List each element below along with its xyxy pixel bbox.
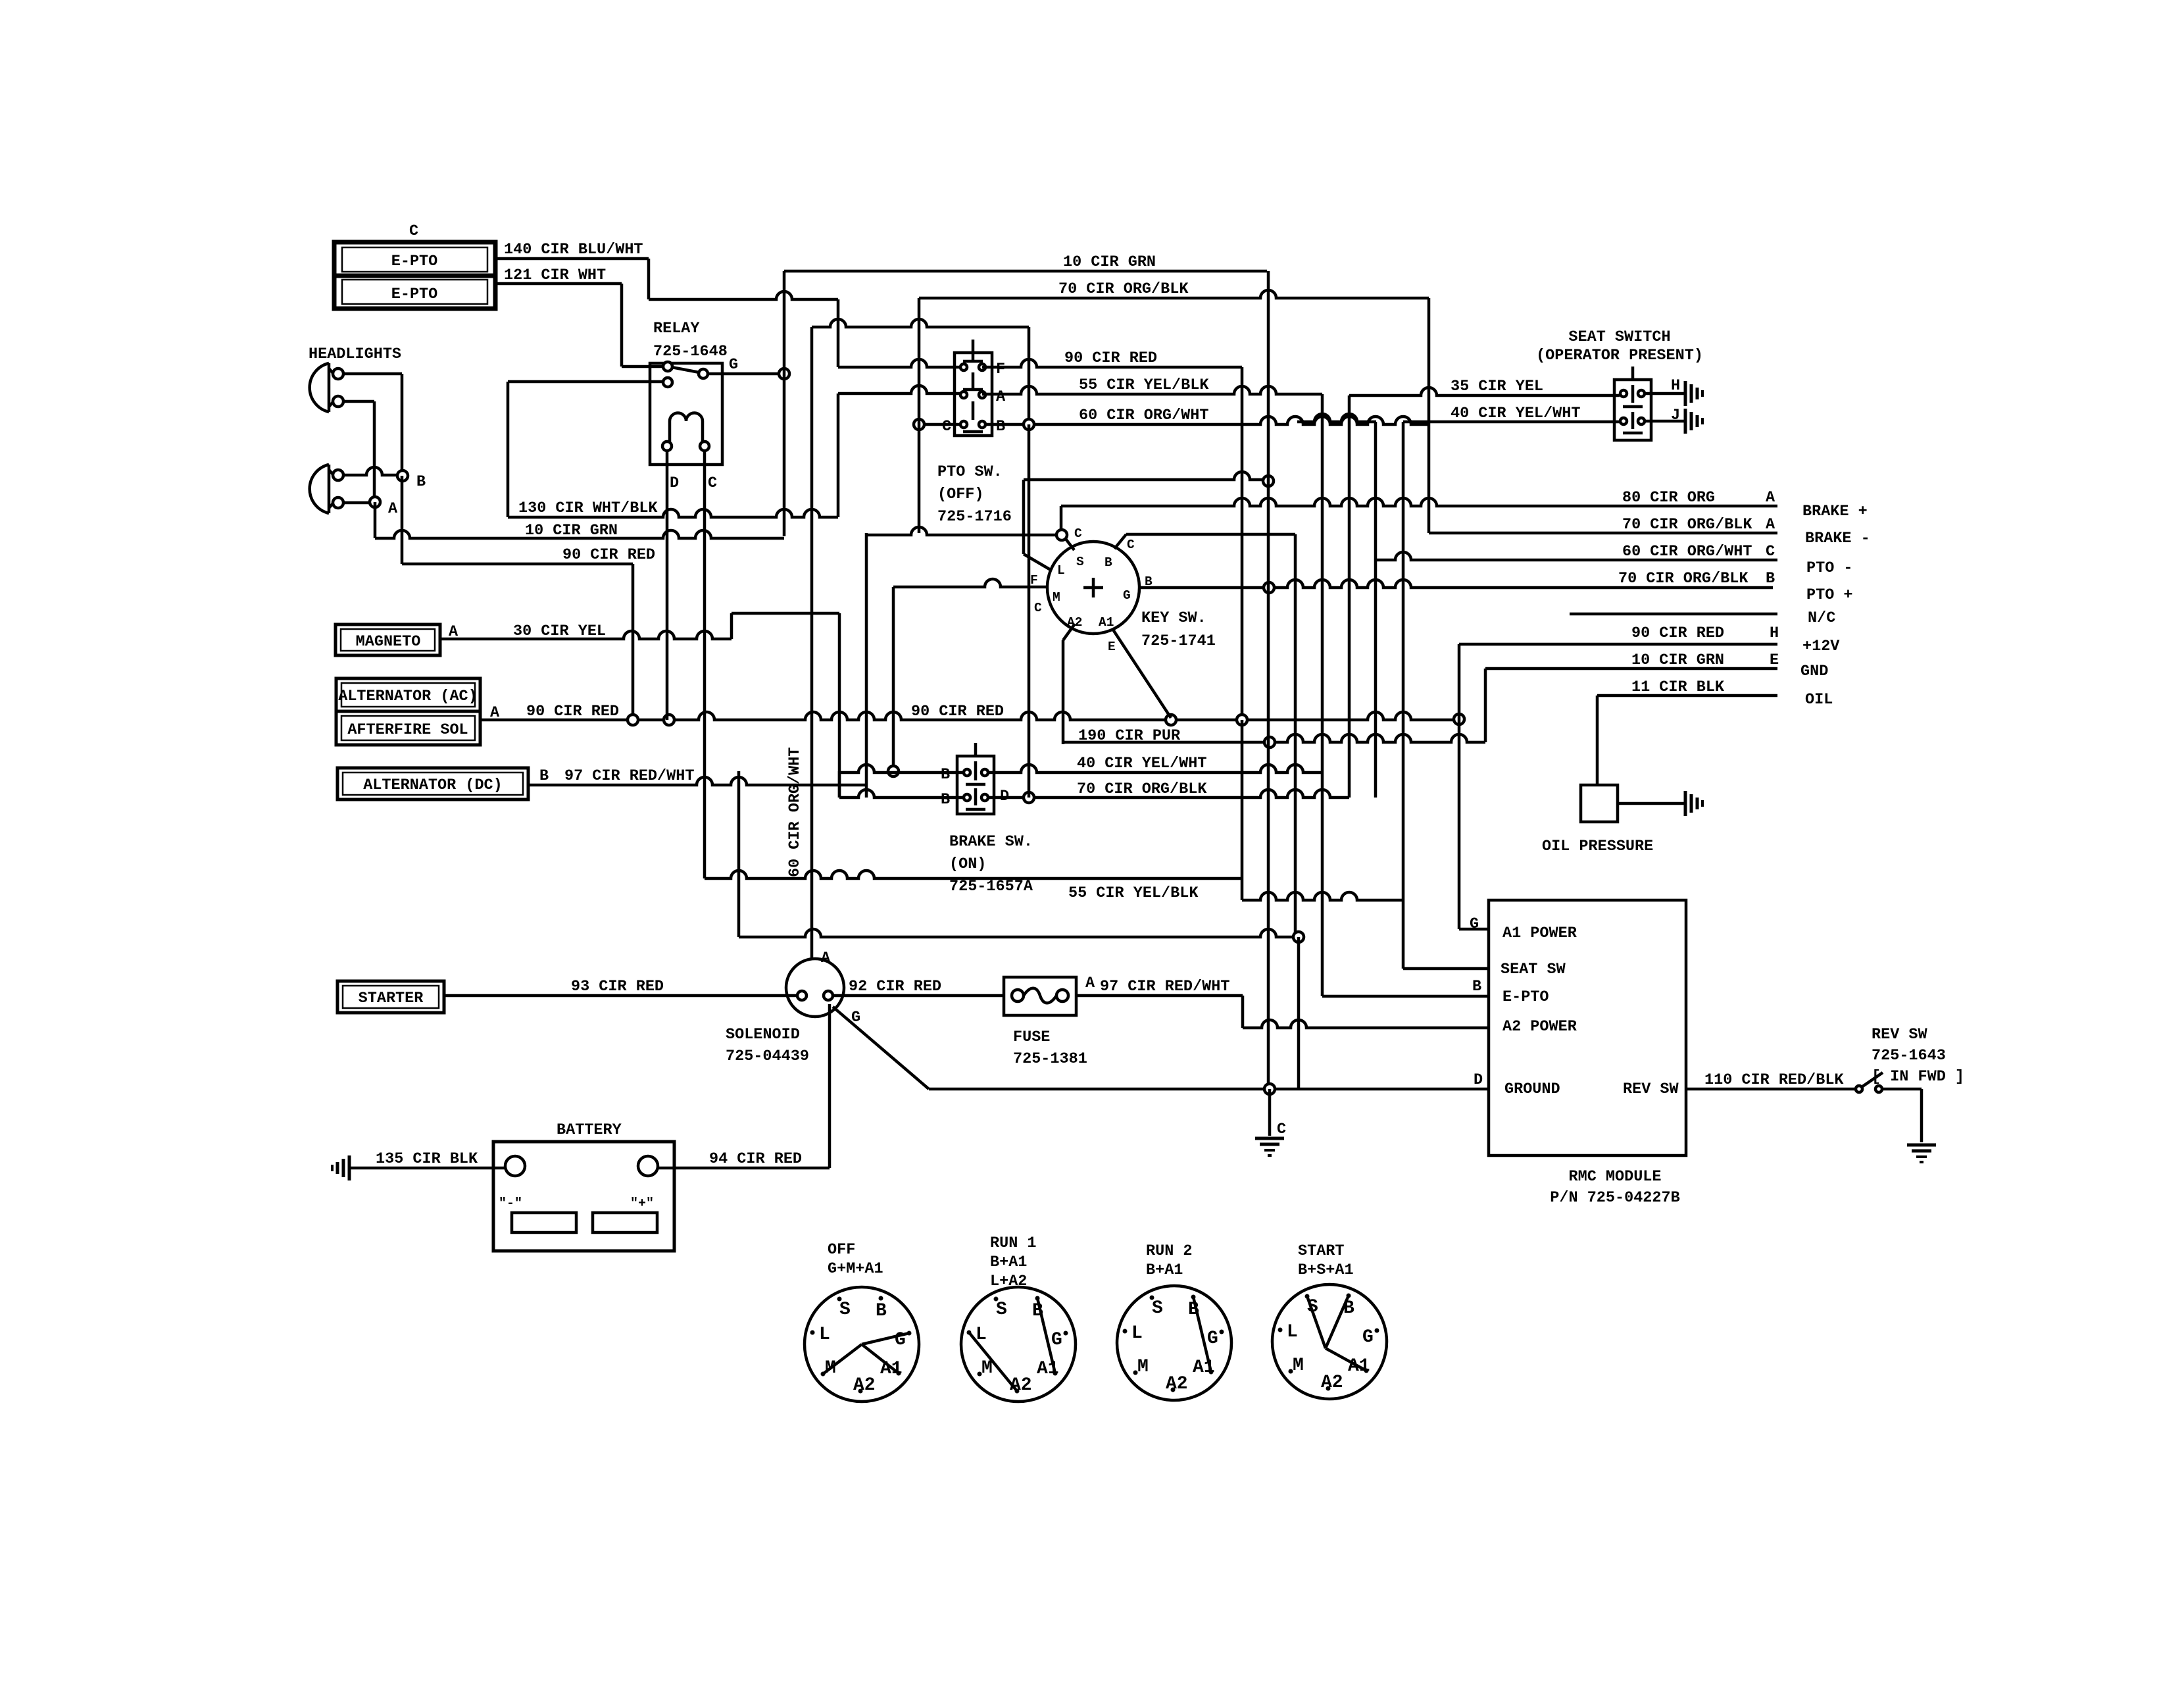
node junction 190/bus bbox=[1264, 737, 1275, 748]
svg-text:G: G bbox=[1123, 588, 1131, 603]
svg-text:A: A bbox=[388, 500, 398, 518]
wire 93 CIR RED (starter to solenoid) bbox=[444, 978, 797, 996]
svg-text:P/N 725-04227B: P/N 725-04227B bbox=[1550, 1189, 1679, 1207]
svg-text:93 CIR RED: 93 CIR RED bbox=[571, 978, 664, 996]
svg-text:725-1643: 725-1643 bbox=[1872, 1047, 1946, 1065]
svg-text:70 CIR ORG/BLK: 70 CIR ORG/BLK bbox=[1622, 516, 1752, 534]
wire C ground drop bbox=[1268, 1089, 1272, 1136]
svg-text:B: B bbox=[876, 1301, 887, 1321]
svg-text:A: A bbox=[1766, 489, 1775, 507]
svg-text:C: C bbox=[1766, 543, 1775, 561]
svg-text:E-PTO: E-PTO bbox=[391, 286, 438, 303]
wire 40 net left segment bbox=[1297, 414, 1376, 422]
svg-text:B+A1: B+A1 bbox=[1146, 1261, 1183, 1279]
wire 10 CIR GRN (lower run to headlights) bbox=[375, 502, 784, 540]
svg-text:M: M bbox=[1137, 1357, 1149, 1377]
node G junction on 10 CIR GRN vertical bbox=[779, 368, 789, 379]
svg-text:G+M+A1: G+M+A1 bbox=[828, 1260, 883, 1278]
component ALTERNATOR (DC) bbox=[337, 768, 528, 799]
svg-text:BRAKE +: BRAKE + bbox=[1802, 503, 1868, 520]
svg-text:10 CIR GRN: 10 CIR GRN bbox=[1063, 253, 1156, 271]
wire rev sw to ground bbox=[1882, 1089, 1922, 1142]
wire seat switch J to ground bbox=[1645, 420, 1685, 423]
wire headlight1 return to node A bbox=[343, 401, 374, 497]
KEY SW name label bbox=[1141, 609, 1216, 650]
wire oil pressure to ground bbox=[1618, 802, 1685, 805]
svg-text:+12V: +12V bbox=[1802, 638, 1840, 655]
SOLENOID name label bbox=[726, 1026, 809, 1065]
wire bus vertical 1969 lower bbox=[1294, 534, 1297, 936]
wire bus vertical 2172 (70 top to BRAKE-) bbox=[1427, 298, 1431, 533]
node junction 90RED/+12V feed bbox=[1454, 714, 1464, 724]
svg-text:(OFF): (OFF) bbox=[937, 486, 984, 503]
wire key C2 diagonal to right branch bbox=[1114, 534, 1295, 549]
svg-text:90 CIR RED: 90 CIR RED bbox=[1631, 624, 1724, 642]
svg-text:AFTERFIRE SOL: AFTERFIRE SOL bbox=[347, 721, 468, 739]
svg-text:SEAT SW: SEAT SW bbox=[1501, 961, 1566, 978]
key position diagram OFF G+M+A1 bbox=[805, 1241, 919, 1402]
svg-text:70 CIR ORG/BLK: 70 CIR ORG/BLK bbox=[1618, 570, 1749, 588]
wire seat switch H to ground bbox=[1645, 392, 1685, 395]
wire 90 CIR RED (PTO F to bus) bbox=[982, 349, 1242, 367]
svg-text:90 CIR RED: 90 CIR RED bbox=[526, 703, 619, 721]
svg-text:OFF: OFF bbox=[828, 1241, 855, 1259]
svg-text:725-1741: 725-1741 bbox=[1141, 632, 1216, 650]
svg-text:OIL: OIL bbox=[1805, 691, 1833, 709]
svg-text:H: H bbox=[1671, 377, 1680, 395]
svg-text:ALTERNATOR (AC): ALTERNATOR (AC) bbox=[338, 688, 478, 705]
ground symbol battery bbox=[348, 1155, 351, 1180]
svg-text:A: A bbox=[821, 950, 831, 967]
wire key A2 to 190 CIR PUR bbox=[1063, 624, 1075, 744]
wire 70 ORG/BLK key branch row bbox=[866, 527, 1074, 550]
wire 121 CIR WHT (E-PTO to relay) bbox=[495, 266, 666, 367]
svg-text:G: G bbox=[1207, 1329, 1218, 1349]
svg-text:START: START bbox=[1298, 1242, 1345, 1260]
svg-text:G: G bbox=[1051, 1330, 1062, 1350]
svg-text:PTO SW.: PTO SW. bbox=[937, 463, 1003, 481]
svg-text:94 CIR RED: 94 CIR RED bbox=[709, 1150, 802, 1168]
svg-text:B: B bbox=[539, 767, 549, 785]
node junction 90RED/headlight bbox=[628, 715, 638, 725]
wire 80 CIR ORG / BRAKE + row bbox=[1061, 489, 1777, 507]
wire 70 CIR ORG/BLK brake row bbox=[839, 533, 1349, 798]
svg-text:C: C bbox=[1127, 538, 1135, 552]
svg-text:11 CIR BLK: 11 CIR BLK bbox=[1631, 678, 1725, 696]
svg-text:F: F bbox=[1030, 573, 1038, 588]
svg-text:D: D bbox=[670, 474, 679, 492]
wire 40 CIR YEL/WHT (to seat switch) bbox=[1403, 405, 1620, 422]
svg-text:B: B bbox=[1472, 978, 1481, 996]
svg-text:PTO -: PTO - bbox=[1806, 559, 1853, 577]
svg-text:S: S bbox=[839, 1300, 851, 1320]
svg-text:PTO +: PTO + bbox=[1806, 586, 1853, 604]
svg-text:RUN 2: RUN 2 bbox=[1146, 1242, 1193, 1260]
svg-text:70 CIR ORG/BLK: 70 CIR ORG/BLK bbox=[1077, 780, 1207, 798]
wire N/C row bbox=[1570, 613, 1777, 616]
svg-text:G: G bbox=[1362, 1327, 1374, 1348]
svg-text:REV SW: REV SW bbox=[1623, 1080, 1679, 1098]
wire 110 CIR RED/BLK (RMC REV SW out) bbox=[1686, 1071, 1855, 1089]
svg-text:L: L bbox=[1131, 1323, 1143, 1344]
svg-text:OIL PRESSURE: OIL PRESSURE bbox=[1542, 838, 1653, 855]
svg-text:BATTERY: BATTERY bbox=[557, 1121, 622, 1139]
component ALTERNATOR (AC) / AFTERFIRE SOL bbox=[336, 678, 480, 745]
component BATTERY bbox=[493, 1121, 674, 1251]
svg-text:E-PTO: E-PTO bbox=[1502, 988, 1549, 1006]
svg-text:L: L bbox=[1287, 1322, 1298, 1342]
switch REV SW 725-1643 (IN FWD) bbox=[1856, 1026, 1964, 1092]
svg-text:D: D bbox=[1474, 1071, 1483, 1089]
wire brake aux row bbox=[739, 771, 1294, 937]
wire 10 CIR GRN E / GND row bbox=[1485, 651, 1779, 742]
node junction key L branch bbox=[1056, 530, 1067, 540]
svg-text:S: S bbox=[1076, 555, 1084, 569]
svg-text:A1 POWER: A1 POWER bbox=[1502, 925, 1577, 942]
svg-text:B: B bbox=[1766, 570, 1775, 588]
FUSE name label bbox=[1013, 1028, 1087, 1068]
svg-text:60 CIR ORG/WHT: 60 CIR ORG/WHT bbox=[786, 748, 804, 877]
switch KEY SW 725-1741 bbox=[1030, 542, 1139, 654]
wire 97 CIR RED/WHT from alternator DC bbox=[528, 767, 866, 785]
svg-text:E: E bbox=[1770, 651, 1779, 669]
node junction aux row bbox=[1293, 932, 1304, 942]
wire 60 CIR ORG/WHT (PTO B rightward) bbox=[986, 407, 1429, 424]
wire bus vertical 2091 (40L to 60 row) bbox=[1374, 422, 1377, 798]
wire 60 net vertical and top jog bbox=[812, 319, 1029, 959]
wire 55 CIR YEL/BLK lower row bbox=[1068, 720, 1403, 902]
svg-text:A: A bbox=[1766, 516, 1775, 534]
svg-text:B+S+A1: B+S+A1 bbox=[1298, 1261, 1354, 1279]
svg-text:REV SW: REV SW bbox=[1872, 1026, 1928, 1044]
svg-text:97 CIR RED/WHT: 97 CIR RED/WHT bbox=[564, 767, 694, 785]
wire 70 CIR ORG/BLK (top run) bbox=[919, 280, 1429, 298]
wire 94 CIR RED (battery + to solenoid G) bbox=[658, 1004, 830, 1168]
svg-text:G: G bbox=[729, 356, 738, 374]
BRAKE SW name label bbox=[949, 833, 1033, 896]
wire 11 CIR BLK / OIL row bbox=[1597, 678, 1777, 785]
svg-text:A2: A2 bbox=[1067, 615, 1082, 630]
switch SEAT SWITCH (operator present) bbox=[1536, 328, 1703, 440]
svg-text:80 CIR ORG: 80 CIR ORG bbox=[1622, 489, 1715, 507]
wire bus vertical 1928 (10GRN to ground) bbox=[1267, 271, 1270, 1089]
wire 30 CIR YEL (magneto to key M) bbox=[440, 613, 839, 798]
svg-text:A2: A2 bbox=[1166, 1374, 1188, 1394]
wire 60 CIR ORG/WHT C / PTO - row bbox=[1376, 543, 1777, 561]
svg-text:90 CIR RED: 90 CIR RED bbox=[911, 703, 1004, 721]
svg-text:70 CIR ORG/BLK: 70 CIR ORG/BLK bbox=[1058, 280, 1189, 298]
svg-text:N/C: N/C bbox=[1808, 609, 1835, 627]
svg-text:110 CIR RED/BLK: 110 CIR RED/BLK bbox=[1704, 1071, 1844, 1089]
svg-text:130 CIR WHT/BLK: 130 CIR WHT/BLK bbox=[518, 499, 658, 517]
node junction key-B bus bbox=[1264, 582, 1274, 593]
svg-text:C: C bbox=[708, 474, 717, 492]
wire bus vertical 2010 (55 to RMC E-PTO) bbox=[1322, 394, 1489, 996]
wire 190 CIR PUR bbox=[1063, 727, 1485, 745]
svg-text:RMC MODULE: RMC MODULE bbox=[1568, 1168, 1661, 1186]
PTO SW name label bbox=[937, 463, 1012, 526]
svg-text:C: C bbox=[1277, 1121, 1286, 1138]
svg-text:A: A bbox=[1085, 975, 1095, 992]
svg-text:(OPERATOR PRESENT): (OPERATOR PRESENT) bbox=[1536, 347, 1703, 365]
svg-text:L+A2: L+A2 bbox=[990, 1273, 1027, 1290]
svg-text:J: J bbox=[1671, 407, 1680, 424]
svg-text:L: L bbox=[819, 1325, 830, 1345]
svg-text:40 CIR YEL/WHT: 40 CIR YEL/WHT bbox=[1451, 405, 1580, 422]
svg-text:BRAKE -: BRAKE - bbox=[1805, 530, 1870, 547]
wire relay pin2 to headlight feed bbox=[508, 382, 663, 517]
node junction 90RED/A1 feed bbox=[1237, 715, 1247, 725]
key position diagram START B+S+A1 bbox=[1272, 1242, 1387, 1399]
svg-text:A1: A1 bbox=[1099, 615, 1114, 630]
svg-text:G: G bbox=[1470, 915, 1479, 933]
svg-text:ALTERNATOR (DC): ALTERNATOR (DC) bbox=[363, 776, 503, 794]
svg-text:97 CIR RED/WHT: 97 CIR RED/WHT bbox=[1100, 978, 1229, 996]
wire 80 row drop to junction bbox=[1060, 506, 1063, 530]
wire 10 CIR GRN vertical drop bbox=[783, 271, 786, 536]
component STARTER bbox=[337, 981, 444, 1013]
svg-text:E-PTO: E-PTO bbox=[391, 253, 438, 270]
svg-text:A: A bbox=[996, 388, 1006, 406]
svg-text:B: B bbox=[1104, 555, 1112, 570]
node junction ground/C bbox=[1264, 1084, 1275, 1094]
svg-text:A2: A2 bbox=[853, 1375, 876, 1396]
svg-text:M: M bbox=[1053, 590, 1060, 605]
node junction on C wire bbox=[914, 419, 924, 430]
wire 90 CIR RED headlight branch bbox=[402, 476, 655, 720]
svg-text:135 CIR BLK: 135 CIR BLK bbox=[376, 1150, 478, 1168]
ground symbol rev sw bbox=[1907, 1144, 1936, 1147]
switch BRAKE SW (ON) 725-1657A bbox=[957, 743, 994, 814]
svg-text:[ IN FWD ]: [ IN FWD ] bbox=[1872, 1068, 1964, 1086]
svg-text:S: S bbox=[1152, 1298, 1163, 1319]
ground for seat H bbox=[1684, 381, 1687, 406]
svg-text:MAGNETO: MAGNETO bbox=[356, 633, 421, 651]
node junction brake D bbox=[1024, 792, 1034, 803]
svg-text:GROUND: GROUND bbox=[1504, 1080, 1560, 1098]
wire 90 CIR RED H / +12V row bbox=[1459, 624, 1779, 929]
wire key M feed bbox=[893, 579, 1049, 587]
wire headlight1 hot to node B bbox=[343, 374, 402, 470]
svg-text:725-04439: 725-04439 bbox=[726, 1048, 809, 1065]
svg-text:S: S bbox=[996, 1300, 1007, 1320]
ground for oil pressure bbox=[1684, 791, 1687, 816]
component OIL PRESSURE switch bbox=[1542, 785, 1653, 855]
svg-text:A2 POWER: A2 POWER bbox=[1502, 1018, 1577, 1036]
component SOLENOID 725-04439 bbox=[786, 950, 860, 1027]
svg-text:H: H bbox=[1770, 624, 1779, 642]
node B junction bbox=[397, 470, 408, 481]
svg-text:SOLENOID: SOLENOID bbox=[726, 1026, 800, 1044]
wire relay coil D drop bbox=[666, 450, 669, 720]
wire solenoid A feed (60 CIR ORG/WHT) bbox=[786, 748, 804, 877]
svg-text:GND: GND bbox=[1800, 663, 1828, 680]
svg-text:A2: A2 bbox=[1321, 1373, 1343, 1393]
svg-text:90 CIR RED: 90 CIR RED bbox=[1064, 349, 1157, 367]
svg-text:SEAT SWITCH: SEAT SWITCH bbox=[1568, 328, 1670, 346]
svg-text:725-1648: 725-1648 bbox=[653, 343, 728, 361]
wire 135 CIR BLK (battery - to ground) bbox=[349, 1150, 505, 1168]
wire 70 ORG/BLK vertical from top corner bbox=[918, 298, 921, 533]
node junction C bus bbox=[1263, 476, 1274, 486]
svg-text:92 CIR RED: 92 CIR RED bbox=[849, 978, 941, 996]
wire 70 CIR ORG/BLK A / BRAKE - row bbox=[1429, 516, 1777, 534]
svg-text:(ON): (ON) bbox=[949, 855, 986, 873]
svg-text:C: C bbox=[942, 418, 951, 436]
wire 40 CIR YEL/WHT brake row bbox=[839, 755, 1322, 773]
svg-text:60 CIR ORG/WHT: 60 CIR ORG/WHT bbox=[1079, 407, 1208, 424]
svg-text:RUN 1: RUN 1 bbox=[990, 1234, 1037, 1252]
wire headlight2 hot to node B bbox=[343, 467, 397, 475]
svg-text:RELAY: RELAY bbox=[653, 320, 700, 338]
wire relay G output bbox=[708, 372, 780, 376]
svg-text:F: F bbox=[996, 361, 1005, 378]
wire 90 CIR RED main run bbox=[480, 703, 1459, 721]
node junction 90RED/relay D bbox=[664, 715, 674, 725]
component MAGNETO bbox=[335, 624, 440, 655]
svg-text:HEADLIGHTS: HEADLIGHTS bbox=[309, 345, 401, 363]
svg-text:121 CIR WHT: 121 CIR WHT bbox=[504, 266, 606, 284]
relay K1 725-1648 bbox=[650, 320, 728, 465]
key position diagram RUN 2 B+A1 bbox=[1117, 1242, 1231, 1400]
svg-text:B: B bbox=[416, 473, 426, 491]
svg-text:"-": "-" bbox=[499, 1196, 522, 1211]
switch PTO SW (OFF) 725-1716 bbox=[955, 340, 992, 436]
svg-text:L: L bbox=[1057, 563, 1065, 578]
svg-text:STARTER: STARTER bbox=[359, 990, 424, 1007]
svg-text:10 CIR GRN: 10 CIR GRN bbox=[1631, 651, 1724, 669]
svg-text:40 CIR YEL/WHT: 40 CIR YEL/WHT bbox=[1077, 755, 1206, 773]
wire bus vertical 1888 (90RED to F) bbox=[1241, 367, 1244, 715]
svg-text:35 CIR YEL: 35 CIR YEL bbox=[1451, 378, 1543, 395]
svg-text:55 CIR YEL/BLK: 55 CIR YEL/BLK bbox=[1079, 376, 1209, 394]
svg-text:C: C bbox=[1074, 526, 1082, 541]
wire 140 CIR BLU/WHT (E-PTO to PTO switch F) bbox=[495, 241, 964, 367]
wire 35 CIR YEL (to seat switch) bbox=[1349, 378, 1620, 395]
svg-text:90 CIR RED: 90 CIR RED bbox=[562, 546, 655, 564]
wire 70 CIR ORG/BLK B / PTO + row bbox=[1618, 570, 1775, 588]
wire 130 CIR WHT/BLK (relay to PTO switch A) bbox=[508, 386, 964, 517]
svg-text:C: C bbox=[409, 222, 418, 240]
svg-text:BRAKE SW.: BRAKE SW. bbox=[949, 833, 1033, 851]
node junction on 60 wire at PTO B bbox=[1024, 419, 1034, 430]
svg-text:KEY SW.: KEY SW. bbox=[1141, 609, 1206, 627]
wire bus vertical 2133 (40R to RMC SEAT SW) bbox=[1403, 422, 1489, 969]
wire key F to C bus bbox=[1024, 472, 1268, 570]
svg-text:725-1381: 725-1381 bbox=[1013, 1050, 1087, 1068]
wire relay coil C drop bbox=[705, 450, 1242, 878]
node junction M/brake bbox=[888, 766, 899, 776]
RMC MODULE name label bbox=[1550, 1168, 1679, 1207]
svg-text:B: B bbox=[996, 418, 1005, 436]
connector J-C E-PTO (two-row box) bbox=[334, 242, 495, 309]
svg-text:60 CIR ORG/WHT: 60 CIR ORG/WHT bbox=[1622, 543, 1752, 561]
wire PTO C to junction bbox=[924, 423, 960, 426]
lamp headlight 2 bbox=[310, 465, 343, 513]
wire 10 CIR GRN (top run) bbox=[784, 253, 1267, 271]
connector function labels bbox=[1800, 503, 1870, 709]
component FUSE 725-1381 bbox=[1004, 977, 1076, 1015]
svg-text:55 CIR YEL/BLK: 55 CIR YEL/BLK bbox=[1068, 884, 1199, 902]
wire 55 CIR YEL/BLK (PTO A rightward) bbox=[982, 376, 1322, 394]
wire bus vertical 2051 (35 drop) bbox=[1348, 395, 1351, 798]
svg-text:C: C bbox=[1034, 601, 1042, 615]
svg-text:FUSE: FUSE bbox=[1013, 1028, 1050, 1046]
svg-text:B: B bbox=[941, 766, 950, 784]
module RMC P/N 725-04227B bbox=[1489, 900, 1686, 1155]
node A junction bbox=[370, 497, 380, 507]
ground symbol C bbox=[1255, 1137, 1284, 1140]
wire headlight2 return to node A bbox=[343, 501, 370, 505]
wire 97 CIR RED/WHT (fuse to RMC A2) bbox=[1076, 975, 1489, 1028]
ground for seat J bbox=[1684, 409, 1687, 434]
lamp headlight 1 bbox=[310, 363, 343, 412]
wire key E diagonal to 90RED bbox=[1113, 630, 1171, 718]
wire ground row to RMC D pin bbox=[929, 1088, 1489, 1091]
svg-text:140 CIR BLU/WHT: 140 CIR BLU/WHT bbox=[504, 241, 643, 259]
wire M feed vertical bbox=[892, 587, 895, 771]
svg-text:B+A1: B+A1 bbox=[990, 1254, 1027, 1271]
svg-text:B: B bbox=[941, 791, 950, 809]
svg-text:725-1716: 725-1716 bbox=[937, 508, 1012, 526]
wire 92 CIR RED (solenoid to fuse) bbox=[833, 978, 1004, 996]
svg-text:"+": "+" bbox=[630, 1196, 654, 1211]
node junction 90RED/key E bbox=[1166, 715, 1176, 725]
key position diagram RUN 1 B+A1 L+A2 bbox=[961, 1234, 1076, 1402]
wire solenoid G ground diagonal bbox=[833, 1007, 929, 1089]
svg-text:M: M bbox=[1293, 1356, 1304, 1376]
wire key G to bus (70 CIR ORG/BLK B) bbox=[1139, 574, 1773, 589]
svg-text:E: E bbox=[1108, 640, 1116, 654]
svg-text:725-1657A: 725-1657A bbox=[949, 878, 1033, 896]
